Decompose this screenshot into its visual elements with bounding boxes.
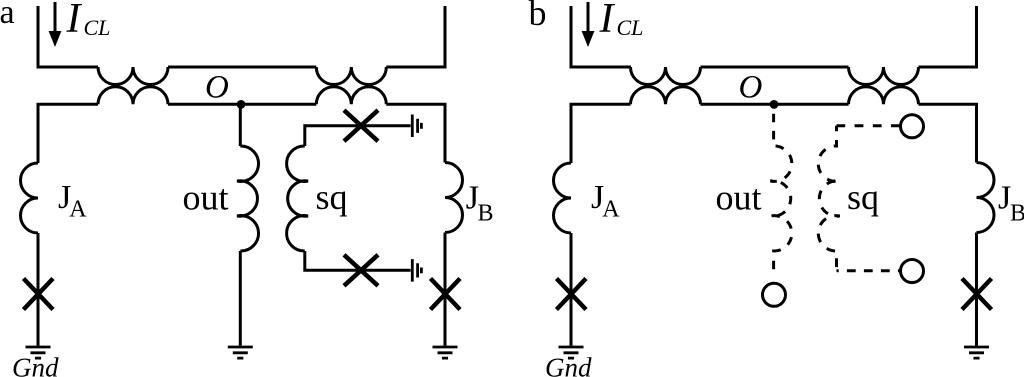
wire (dashed) sq coil body (3 humps, bulge left)	[818, 126, 839, 271]
panel a: wire left input vertical + top rail left segment	[38, 6, 98, 67]
ground symbol JA branch (panel b)	[559, 347, 584, 358]
transformer T1a top winding (control line)	[98, 67, 168, 85]
svg-text:B: B	[478, 201, 494, 227]
inductor JB coil (2 humps, bulge right)	[445, 163, 463, 233]
ground symbol (sideways) sq bottom lead	[412, 259, 421, 282]
wire bottom rail middle segment through node O	[168, 103, 316, 106]
svg-text:I: I	[599, 0, 616, 42]
josephson junction JB (cross)	[431, 279, 461, 310]
svg-text:a: a	[0, 0, 15, 31]
ground symbol JB branch (panel b)	[964, 347, 989, 358]
wire JB branch vertical through junction to ground	[444, 233, 447, 346]
svg-text:O: O	[739, 70, 763, 106]
svg-text:CL: CL	[617, 15, 644, 40]
inductor sq coil (3 humps, bulge left)	[287, 146, 308, 251]
transformer T2b bottom winding	[849, 87, 919, 105]
transformer T1b bottom winding	[631, 87, 701, 105]
josephson junction on sq bottom lead (cross)	[344, 255, 378, 286]
svg-text:out: out	[716, 178, 762, 218]
josephson junction JA (cross)	[24, 279, 54, 310]
inductor out coil (3 humps, bulge right)	[237, 146, 258, 251]
wire (dashed) sq top lead from open terminal	[837, 124, 900, 127]
transformer T2a bottom winding	[316, 87, 386, 105]
svg-text:b: b	[529, 0, 547, 33]
wire JA branch vertical through junction to ground	[570, 233, 573, 346]
svg-text:Gnd: Gnd	[12, 353, 59, 377]
wire (dashed) sq bottom lead to open terminal	[837, 269, 900, 272]
wire (dashed) out branch + out coil (3 humps) down to open terminal	[770, 105, 791, 278]
svg-text:A: A	[69, 197, 87, 223]
inductor JB coil (2 humps, bulge right)	[977, 163, 995, 233]
wire top rail middle segment	[168, 66, 316, 69]
transformer T1a bottom winding	[98, 87, 168, 105]
wire top rail right segment + right input vertical	[386, 6, 445, 67]
wire top rail middle segment	[701, 66, 849, 69]
svg-text:CL: CL	[84, 15, 111, 40]
wire out branch from node O down to coil	[239, 104, 242, 146]
open terminal circle of out winding	[763, 283, 786, 306]
wire out branch vertical down to ground	[239, 251, 242, 346]
open terminal circle of sq top lead	[901, 115, 924, 138]
svg-text:A: A	[602, 197, 620, 223]
svg-text:sq: sq	[316, 177, 348, 217]
open terminal circle of sq bottom lead	[901, 260, 924, 283]
panel b: wire left input vertical + top rail left segment	[571, 6, 631, 67]
ground symbol (sideways) sq top lead	[412, 115, 421, 138]
josephson junction on sq top lead (cross)	[344, 110, 378, 141]
inductor JA coil (2 humps, bulge left)	[554, 163, 572, 233]
svg-text:out: out	[183, 178, 229, 218]
svg-text:I: I	[66, 0, 83, 42]
svg-text:B: B	[1010, 201, 1024, 227]
ground symbol JB branch	[433, 347, 458, 358]
svg-text:sq: sq	[847, 177, 879, 217]
wire sq bottom lead (from coil bottom corner to bias terminal)	[305, 251, 411, 270]
node O junction dot (panel b)	[770, 100, 779, 109]
wire bottom rail left segment + corner down to JA branch	[571, 104, 631, 163]
transformer T2b top winding (control line)	[849, 67, 919, 85]
josephson junction JB (cross, panel b)	[962, 279, 992, 310]
wire JA branch vertical through junction to ground	[37, 233, 40, 346]
josephson junction JA (cross, panel b)	[557, 279, 587, 310]
svg-text:O: O	[205, 70, 229, 106]
arrow ICL current direction (panel a)	[54, 2, 57, 32]
node O junction dot	[237, 100, 246, 109]
ground symbol out branch	[228, 347, 253, 358]
transformer T1b top winding (control line)	[631, 67, 701, 85]
wire JB branch vertical through junction to ground	[975, 233, 978, 346]
arrow ICL current direction (panel b)	[587, 2, 590, 32]
inductor JA coil (2 humps, bulge left)	[21, 163, 38, 233]
transformer T2a top winding (control line)	[316, 67, 386, 85]
ground symbol JA branch	[26, 347, 51, 358]
svg-text:Gnd: Gnd	[545, 353, 592, 377]
wire bottom rail right segment + corner down to JB branch	[919, 104, 977, 162]
wire sq top lead (from coil top corner to bias terminal)	[305, 126, 411, 146]
wire bottom rail left segment + corner down to JA branch	[38, 104, 98, 163]
wire bottom rail right segment + corner down to JB branch	[386, 104, 445, 162]
wire top rail right segment + right input vertical	[919, 6, 977, 67]
wire bottom rail middle segment through node O	[701, 103, 849, 106]
